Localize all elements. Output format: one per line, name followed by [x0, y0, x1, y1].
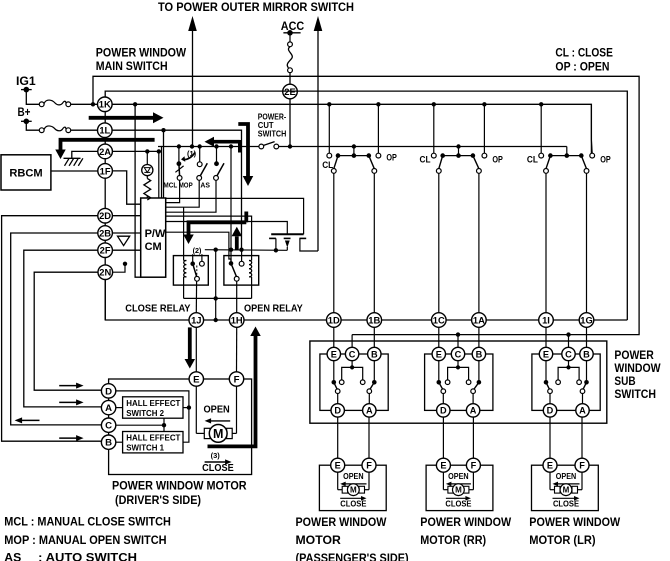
flow arrow into B	[59, 437, 77, 439]
sub switch unit 3 box	[532, 354, 600, 410]
svg-text:B+: B+	[18, 105, 31, 119]
wire B+ to fuse	[26, 121, 39, 130]
wire 2B to C (driver motor)	[11, 233, 102, 425]
svg-text:OPEN: OPEN	[203, 404, 229, 415]
svg-text:CL: CL	[527, 154, 538, 164]
sub switch 3 D wire	[549, 394, 551, 404]
svg-text:OPEN: OPEN	[448, 472, 469, 481]
switch bank 1 CL riser	[328, 104, 330, 153]
switch bank 1 CL contact	[327, 153, 332, 158]
connector 1D	[327, 313, 342, 328]
svg-text:OP: OP	[600, 154, 611, 164]
motor M1	[337, 472, 339, 490]
fuse B+ line	[39, 128, 44, 133]
flow arrow power-cut (down)	[238, 124, 248, 176]
wire bank 2 OP to connector	[478, 173, 480, 312]
svg-text:CLOSE RELAY: CLOSE RELAY	[125, 304, 190, 315]
svg-text:B: B	[371, 349, 378, 359]
sub switch 3 B contact	[586, 361, 588, 383]
pin A sub switch 3	[576, 404, 589, 417]
wire open relay to 1H	[236, 281, 238, 312]
sub switch 1 B contact	[373, 361, 375, 383]
svg-text:E: E	[436, 349, 442, 359]
connector 2B	[98, 226, 113, 241]
wire MOP to P/W CM	[166, 180, 200, 207]
wire bank 3 CL to connector	[545, 173, 547, 312]
wire sub switch 1 A to motor F	[368, 417, 370, 458]
box HALL EFFECT SWITCH 1	[123, 432, 183, 453]
svg-text:2B: 2B	[99, 227, 111, 238]
svg-text:C: C	[349, 349, 356, 359]
wire power-cut to open relay contact	[230, 147, 232, 264]
wire riser 1K-line to P/W CM bottom corner	[135, 104, 141, 277]
svg-text:OP: OP	[386, 153, 397, 163]
flow arrow close command	[244, 212, 248, 223]
svg-text:MOP: MOP	[179, 180, 193, 189]
switch bank 3 CL contact	[539, 153, 544, 158]
svg-text:: AUTO SWITCH: : AUTO SWITCH	[38, 550, 137, 561]
junction dot 1K/PWCM riser	[133, 102, 137, 106]
switch bank 3 bus	[550, 155, 581, 157]
svg-text:M: M	[455, 486, 462, 495]
wire left column connector stack	[104, 104, 106, 320]
wire 2F to P/W CM	[112, 249, 140, 251]
connector 1F	[98, 164, 113, 179]
svg-text:C: C	[565, 349, 572, 359]
svg-text:C: C	[455, 349, 462, 359]
svg-text:POWER WINDOW: POWER WINDOW	[96, 45, 187, 59]
svg-text:F: F	[234, 374, 240, 385]
svg-text:WINDOW: WINDOW	[614, 361, 661, 375]
connector 1H	[229, 313, 244, 328]
switch bank 2 bus	[443, 155, 473, 157]
sub switch 3 A wire	[582, 394, 584, 404]
signal triangle below 2B	[118, 236, 130, 245]
svg-text:E: E	[440, 461, 446, 471]
wire mirror-switch arrow to MOSFET leg	[317, 29, 319, 251]
flow arrow into A	[59, 401, 77, 403]
box RBCM	[1, 155, 51, 190]
sub switch 2 E contact	[438, 361, 440, 383]
svg-text:1I: 1I	[542, 314, 550, 325]
wire C feed sub switch 3	[568, 335, 570, 348]
switch AS	[214, 144, 218, 148]
sub switch 1 E contact	[333, 361, 335, 383]
pin E motor 1	[331, 458, 345, 472]
pin B sub switch 3	[580, 347, 593, 360]
pin A sub switch 1	[363, 404, 376, 417]
connector 1G	[579, 313, 594, 328]
wire C feed sub switch 2	[457, 335, 459, 348]
wire bus 1L row	[105, 130, 242, 250]
motor box 2	[426, 465, 493, 510]
pin B sub switch 2	[472, 347, 485, 360]
pin D sub switch 1	[331, 404, 344, 417]
svg-text:CL: CL	[322, 160, 333, 170]
switch MCL	[177, 144, 181, 148]
label (2)	[192, 246, 205, 254]
wire 2A row	[112, 150, 161, 152]
svg-text:1A: 1A	[473, 314, 485, 325]
pin E sub switch 3	[539, 347, 552, 360]
switch bank 3 OP contact	[590, 153, 595, 158]
svg-text:D: D	[105, 386, 112, 397]
wire P/W CM open-coil drive	[166, 216, 252, 256]
svg-text:CM: CM	[145, 241, 162, 253]
circuit breaker ACC	[289, 33, 291, 42]
connector 1A	[472, 313, 487, 328]
sub switch unit 2 box	[425, 354, 493, 410]
sub switch 2 B contact	[478, 361, 480, 383]
wire P/W CM to MOSFET gate	[166, 222, 288, 235]
wire IG1 to fuse	[26, 90, 39, 105]
svg-text:TO POWER OUTER MIRROR SWITCH: TO POWER OUTER MIRROR SWITCH	[158, 0, 354, 14]
svg-text:SWITCH: SWITCH	[614, 387, 656, 401]
svg-text:CLOSE: CLOSE	[553, 500, 579, 509]
connector 2A	[98, 144, 113, 159]
svg-text:CLOSE: CLOSE	[445, 500, 471, 509]
box HALL EFFECT SWITCH 2	[123, 397, 183, 418]
connector 1K	[98, 97, 113, 112]
switch bank 1 mid feed	[352, 144, 356, 148]
flow arrow to ground (down)	[61, 140, 155, 150]
motor M driver	[195, 386, 197, 433]
svg-text:(2): (2)	[193, 246, 202, 255]
box POWER WINDOW SUB SWITCH	[310, 341, 607, 423]
svg-text:(3): (3)	[211, 451, 221, 460]
connector 1J	[189, 313, 204, 328]
flow arrow open command (up)	[235, 236, 239, 249]
pin C sub switch 2	[451, 347, 464, 360]
svg-text:POWER WINDOW: POWER WINDOW	[529, 515, 620, 529]
svg-text:MCL: MCL	[163, 180, 177, 189]
motor M2	[442, 472, 444, 490]
switch bank 2 CL riser	[433, 104, 435, 153]
flow arrow close motor 1	[340, 497, 362, 499]
wire D to hall switches	[116, 391, 189, 442]
svg-text:POWER: POWER	[614, 348, 654, 362]
pin E motor 3	[543, 458, 557, 472]
relay CLOSE RELAY box	[173, 256, 208, 286]
junction dot mirror-switch branch	[190, 144, 194, 148]
wire connector to sub switch 1 E	[333, 327, 335, 347]
wire 1J to E (driver)	[195, 327, 197, 372]
svg-text:AS: AS	[4, 550, 21, 561]
pin F driver motor	[229, 372, 243, 386]
wire riser 1L-dot to P/W CM top	[163, 130, 165, 198]
connector 2D	[98, 208, 113, 223]
junction dot power-cut branch	[229, 144, 233, 148]
wire B to hall switch 1	[116, 441, 123, 443]
svg-text:2N: 2N	[99, 267, 111, 278]
sub switch 1 A wire	[368, 394, 370, 404]
svg-text:P/W: P/W	[145, 228, 166, 240]
node ACC terminal	[283, 32, 300, 34]
flow arrow out of C	[21, 419, 39, 421]
svg-text:HALL EFFECT: HALL EFFECT	[126, 433, 181, 443]
svg-text:POWER WINDOW MOTOR: POWER WINDOW MOTOR	[112, 479, 247, 493]
svg-text:D: D	[547, 406, 554, 416]
sub switch 2 D wire	[442, 394, 444, 404]
wire bank 1 OP to connector	[373, 173, 375, 312]
connector 1I	[539, 313, 554, 328]
wire power-cut bus elbow into P/W CM	[158, 147, 162, 199]
pin E sub switch 1	[327, 347, 340, 360]
svg-text:D: D	[334, 406, 341, 416]
wire connector to sub switch 1 B	[373, 327, 375, 347]
svg-text:F: F	[579, 461, 585, 471]
sub switch 1 internal bus	[351, 361, 353, 368]
svg-text:2F: 2F	[100, 245, 111, 256]
transistor Q1 (power MOSFET)	[271, 233, 303, 235]
connector 1B	[367, 313, 382, 328]
wire bus B (through 2E)	[105, 91, 627, 320]
wire 2E to power-cut bus	[289, 99, 291, 147]
fuse IG1 line	[39, 102, 44, 107]
wire bank 1 CL to connector	[333, 173, 335, 312]
sub switch unit 1 box	[320, 354, 388, 410]
pin B sub switch 1	[368, 347, 381, 360]
junction dot 2A/PWCM riser	[157, 149, 161, 153]
pin A sub switch 2	[466, 404, 479, 417]
actuation arrow (1) for MCL	[183, 153, 196, 160]
switch bank 3 mid feed	[566, 147, 568, 156]
wire connector row	[105, 279, 627, 320]
pin B driver motor	[101, 435, 115, 449]
switch bank 3 CL riser	[540, 104, 542, 153]
svg-text:HALL EFFECT: HALL EFFECT	[126, 398, 181, 408]
pin D sub switch 2	[437, 404, 450, 417]
wire sub switch 1 D to motor E	[337, 417, 339, 458]
wire C bus (bus A continuation)	[456, 332, 460, 336]
wire power-cut bus	[162, 146, 259, 148]
wire 2D to B (driver motor)	[2, 216, 102, 442]
switch bank 1 bus	[338, 155, 369, 157]
svg-text:1H: 1H	[231, 314, 243, 325]
svg-text:POWER WINDOW: POWER WINDOW	[296, 515, 387, 529]
pin F motor 2	[466, 458, 480, 472]
pin F motor 3	[575, 458, 589, 472]
wire bus 1K row	[105, 104, 592, 153]
svg-text:1D: 1D	[328, 314, 340, 325]
switch bank 2 OP contact	[482, 153, 487, 158]
junction dot 2A/resistor riser	[145, 149, 149, 153]
wire relay bus to connector row	[215, 250, 217, 320]
svg-text:OPEN RELAY: OPEN RELAY	[244, 304, 303, 315]
connector 2E	[283, 84, 298, 99]
sub switch 3 E contact	[545, 361, 547, 383]
svg-text:SWITCH 2: SWITCH 2	[126, 408, 164, 418]
connector 2N	[98, 265, 113, 280]
wire C common to hall switches	[116, 424, 164, 426]
wire sub switch 3 D to motor E	[549, 417, 551, 458]
wire riser 2A-dot into P/W CM	[158, 151, 160, 198]
flow arrow close into driver motor (down)	[188, 327, 192, 359]
svg-text:1C: 1C	[433, 314, 445, 325]
junction dot 1L branch	[161, 128, 165, 132]
flow arrow open driver motor	[210, 420, 230, 422]
wire MCL to P/W CM	[166, 180, 180, 202]
svg-text:SWITCH 1: SWITCH 1	[126, 443, 164, 453]
switch bank 2 OP riser	[483, 104, 485, 153]
node 2N stub	[113, 265, 126, 272]
svg-text:1L: 1L	[99, 125, 110, 136]
pin C sub switch 1	[345, 347, 358, 360]
svg-text:OPEN: OPEN	[556, 472, 577, 481]
wire fuse to 1L	[71, 129, 98, 131]
svg-text:A: A	[366, 406, 373, 416]
svg-text:POWER WINDOW: POWER WINDOW	[420, 515, 511, 529]
svg-text:IG1: IG1	[16, 74, 36, 88]
pin E driver motor	[189, 372, 203, 386]
wire ACC to 2E	[289, 73, 291, 85]
flow arrow power-cut (left)	[214, 140, 240, 144]
wire A to hall switch 2	[116, 407, 123, 409]
wire 2A to ground	[72, 151, 98, 158]
wire resistor to P/W CM	[146, 196, 148, 198]
sub switch 1 D wire	[337, 394, 339, 404]
arrow to power outer mirror switch (left)	[188, 16, 197, 31]
node B+ terminal	[21, 120, 32, 122]
svg-text:C: C	[105, 421, 112, 432]
svg-text:A: A	[579, 406, 586, 416]
wire relay coil return bus	[184, 297, 252, 299]
svg-text:SUB: SUB	[614, 374, 635, 388]
svg-text:(DRIVER'S SIDE): (DRIVER'S SIDE)	[115, 493, 201, 507]
flow arrow open motor 2	[450, 483, 471, 485]
relay contact (close)	[192, 252, 194, 264]
svg-text:RBCM: RBCM	[9, 167, 42, 179]
svg-text:A: A	[470, 406, 477, 416]
motor M3	[549, 472, 551, 490]
flow arrow open motor 3	[557, 483, 580, 485]
svg-text:MCL : MANUAL CLOSE SWITCH: MCL : MANUAL CLOSE SWITCH	[4, 514, 171, 528]
wire P/W CM close-relay drive	[183, 207, 185, 255]
switch bank 1 OP contact	[376, 153, 381, 158]
node IG1 terminal	[21, 89, 32, 91]
switch MOP	[198, 144, 202, 148]
junction dot source/open-contact	[229, 248, 233, 252]
svg-text:ACC: ACC	[281, 21, 304, 33]
connector 1L	[98, 123, 113, 138]
switch bank 2 CL contact	[431, 153, 436, 158]
motor box 1	[319, 465, 386, 510]
wire close relay to 1J	[195, 281, 197, 312]
pin D sub switch 3	[543, 404, 556, 417]
wire sub switch 3 A to motor F	[581, 417, 583, 458]
wire bank 2 CL to connector	[438, 173, 440, 312]
svg-text:(PASSENGER'S SIDE): (PASSENGER'S SIDE)	[296, 551, 409, 561]
flow arrow open from driver motor (up)	[208, 336, 256, 446]
svg-text:E: E	[543, 349, 549, 359]
connector 1C	[432, 313, 447, 328]
wire connector to sub switch 2 E	[438, 327, 440, 347]
wire C feed sub switch 1	[351, 335, 353, 348]
pin E sub switch 2	[432, 347, 445, 360]
svg-text:OP : OPEN: OP : OPEN	[555, 60, 609, 74]
junction dot source/relay-bus	[214, 248, 218, 252]
wire bank 3 OP to connector	[586, 173, 588, 312]
svg-text:SWITCH: SWITCH	[258, 129, 287, 139]
pin F motor 1	[362, 458, 376, 472]
flow arrow B+ feed (right)	[89, 116, 153, 120]
wire MOSFET source line	[202, 249, 287, 252]
pin A driver motor	[101, 400, 115, 414]
svg-text:B: B	[105, 438, 112, 449]
relay coil (open)	[251, 256, 253, 261]
svg-text:E: E	[547, 461, 553, 471]
diode A1 (circled)	[146, 151, 148, 164]
junction dot relay bus / connector row	[214, 318, 218, 322]
svg-text:E: E	[331, 349, 337, 359]
switch bank 3 OP riser	[590, 104, 592, 140]
junction dot source/MOSFET leg	[274, 248, 278, 252]
flow arrow close motor 2	[446, 497, 467, 499]
svg-text:1J: 1J	[191, 314, 201, 325]
wire connector to sub switch 2 B	[478, 327, 480, 347]
svg-text:AS: AS	[200, 180, 210, 189]
svg-text:B: B	[476, 349, 483, 359]
svg-text:MOP : MANUAL OPEN SWITCH: MOP : MANUAL OPEN SWITCH	[4, 533, 166, 547]
switch POWER-CUT	[259, 144, 264, 149]
wire 1F to P/W CM	[112, 171, 140, 204]
ground	[64, 157, 81, 159]
wire P/W CM to open relay contact	[166, 232, 231, 263]
sub switch 3 internal bus	[568, 361, 570, 368]
wire sub switch 2 A to motor F	[472, 417, 474, 458]
svg-text:1B: 1B	[368, 314, 380, 325]
svg-text:A: A	[105, 403, 112, 414]
wire connector to sub switch 3 E	[545, 327, 547, 347]
svg-text:2D: 2D	[99, 210, 111, 221]
svg-text:MOTOR (LR): MOTOR (LR)	[529, 533, 595, 547]
svg-text:M: M	[213, 427, 223, 441]
flow arrow close driver motor	[205, 461, 227, 463]
svg-text:D: D	[440, 406, 447, 416]
pin D driver motor	[101, 384, 115, 398]
wire RBCM to 1F	[51, 170, 98, 172]
wire P/W CM to MOSFET gate (outer)	[166, 198, 304, 234]
connector 2F	[98, 243, 113, 258]
svg-text:M: M	[563, 486, 570, 495]
pin C sub switch 3	[562, 347, 575, 360]
pin E motor 2	[436, 458, 450, 472]
wire connector to sub switch 3 B	[586, 327, 588, 347]
svg-text:2A: 2A	[99, 146, 111, 157]
resistor R1	[146, 176, 148, 179]
svg-text:E: E	[335, 461, 341, 471]
wire AS to P/W CM	[166, 180, 216, 212]
wire 2B to P/W CM	[112, 232, 140, 234]
relay coil (close)	[183, 256, 185, 261]
svg-text:1K: 1K	[99, 99, 111, 110]
svg-text:1F: 1F	[100, 165, 111, 176]
svg-text:MAIN SWITCH: MAIN SWITCH	[96, 59, 168, 73]
flow arrow into D	[59, 385, 77, 387]
switch bank 2 mid feed	[456, 144, 460, 148]
sub switch 2 A wire	[472, 394, 474, 404]
flow arrow close motor 3	[553, 497, 576, 499]
junction dot 2E/power-cut bus	[288, 144, 292, 148]
wire fuse to node 1K	[71, 103, 98, 105]
svg-text:CLOSE: CLOSE	[202, 463, 234, 474]
wire 2D to P/W CM	[112, 215, 140, 217]
svg-text:CL: CL	[420, 154, 431, 164]
motor box 3	[532, 465, 599, 510]
box POWER WINDOW MOTOR (driver)	[109, 379, 252, 475]
junction dot source/1L branch	[239, 248, 243, 252]
svg-text:F: F	[366, 461, 372, 471]
